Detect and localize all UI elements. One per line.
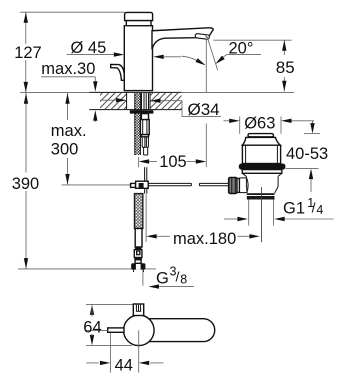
svg-text:300: 300 (51, 141, 79, 159)
dim 85 (283, 40, 285, 55)
fitting neck (135, 260, 141, 264)
knurled nut (229, 177, 237, 193)
top view body circle (124, 315, 155, 346)
drain centerline (261, 187, 263, 242)
svg-text:8: 8 (180, 272, 187, 286)
svg-text:G1: G1 (283, 200, 305, 218)
angle arc left with arrow (182, 56, 197, 60)
deck top line (20, 91, 89, 93)
drain mid body (245, 176, 247, 186)
svg-text:85: 85 (276, 58, 295, 77)
deck hatch left (100, 93, 127, 109)
svg-text:4: 4 (316, 203, 323, 217)
dim 127 top reference line (20, 11, 125, 13)
svg-text:Ø63: Ø63 (244, 114, 275, 132)
svg-text:40-53: 40-53 (286, 145, 328, 163)
hose lower tube (135, 229, 142, 248)
drain thread band (247, 193, 275, 199)
deck hole left edge (126, 92, 128, 109)
svg-text:127: 127 (14, 44, 42, 62)
deck bottom line (89, 109, 181, 111)
drain neck flare (242, 137, 280, 145)
dim Ø63 (224, 120, 230, 122)
water stream vertical line (205, 39, 207, 92)
svg-text:max.30: max.30 (41, 60, 95, 78)
water stream slant line (208, 39, 218, 71)
top view: 64 top reference (86, 303, 133, 305)
Ø45 right arrow (164, 56, 181, 58)
hose collar (141, 114, 148, 120)
deck hatch right (150, 93, 182, 109)
deck hole right edge (149, 92, 151, 109)
temperature lever (111, 65, 125, 81)
mounting washer (130, 110, 154, 113)
dim 64 (90, 304, 94, 315)
dim 64 bottom reference (86, 344, 132, 346)
drain taper to thread (246, 187, 248, 194)
T-block (136, 181, 149, 188)
knurl collar (237, 179, 239, 193)
top view tab (133, 304, 143, 316)
T-block vertical tube lower (144, 188, 146, 193)
drain seal ring (239, 164, 286, 170)
dim 127 (25, 12, 27, 44)
hose twin tubes (141, 137, 143, 148)
drain taper under flange (242, 173, 246, 176)
threaded shank in hole and below (135, 93, 141, 155)
hose step (141, 135, 148, 137)
drain flange (242, 170, 281, 174)
dim 40-53 (312, 121, 314, 124)
dim 85 top reference (214, 39, 292, 41)
svg-text:/: / (176, 269, 180, 285)
horizontal pop-up rod left segment (148, 182, 191, 184)
dim 390 bottom reference (18, 268, 156, 270)
svg-text:44: 44 (115, 356, 133, 374)
dim max.180 (146, 234, 157, 238)
nut stubs (133, 270, 135, 272)
hose lower tube (143, 147, 145, 155)
svg-text:max.: max. (51, 122, 87, 140)
drain tailpipe (248, 200, 250, 226)
stub reference line (86, 329, 108, 331)
dim 44 (86, 362, 98, 364)
hose nut (131, 263, 145, 269)
svg-text:390: 390 (12, 175, 40, 193)
pull rod tick (145, 194, 147, 242)
dim max.300 (67, 93, 69, 107)
hose end crimp (135, 247, 141, 250)
dim 390 (25, 93, 27, 173)
max.300 bottom reference / lever rod line (62, 184, 131, 186)
cap band (126, 21, 151, 26)
hose end fitting (134, 250, 142, 258)
side boss curve (246, 178, 248, 193)
svg-text:105: 105 (159, 153, 187, 171)
top view spout pill (150, 319, 215, 342)
aerator (195, 33, 210, 39)
drain: Ø63 extension lines (239, 117, 241, 134)
spout (152, 28, 213, 50)
hose upper body (140, 120, 149, 135)
T-block vertical tube upper (144, 167, 146, 181)
svg-text:64: 64 (83, 318, 101, 336)
dim 105 (138, 157, 140, 167)
T-block collar (131, 183, 136, 187)
angle arc right with arrow (223, 55, 227, 58)
svg-text:/: / (312, 200, 316, 216)
T-block pin (139, 183, 144, 188)
faucet body (124, 26, 152, 91)
fitting band (134, 258, 142, 260)
drain upper body (242, 145, 280, 163)
label Ø34 (101, 99, 117, 101)
dim 44 ticks (109, 333, 111, 373)
max.30 lower arrow (94, 118, 96, 122)
braided hose (135, 194, 143, 229)
drain cap surface (246, 136, 276, 138)
side boss (239, 177, 246, 179)
faucet cap (125, 12, 153, 20)
thread stub 3/8 (142, 270, 144, 286)
svg-text:max.180: max.180 (173, 230, 236, 248)
horizontal pop-up rod right segment (199, 182, 228, 184)
svg-text:Ø34: Ø34 (188, 100, 220, 119)
supply pipe in hole (141, 93, 143, 110)
top view lever stub (108, 328, 124, 332)
drain plug disk (248, 134, 274, 137)
